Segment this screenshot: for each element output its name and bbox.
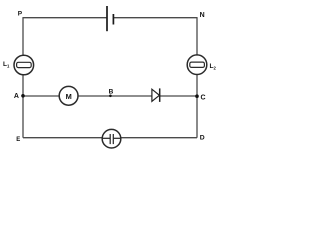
svg-text:E: E <box>16 137 20 143</box>
svg-text:C: C <box>201 94 206 101</box>
svg-text:N: N <box>200 12 205 19</box>
svg-text:D: D <box>200 135 205 142</box>
svg-text:A: A <box>14 93 19 100</box>
svg-text:B: B <box>109 88 114 95</box>
svg-text:M: M <box>66 92 72 101</box>
svg-text:P: P <box>18 11 23 18</box>
